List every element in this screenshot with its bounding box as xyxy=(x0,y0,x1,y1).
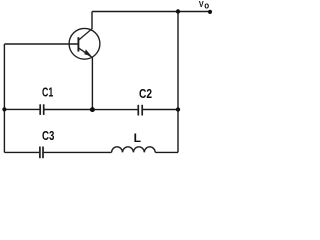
wire right vertical rail xyxy=(177,12,179,153)
svg-text:L: L xyxy=(134,131,141,145)
wire top rail from collector to output terminal xyxy=(92,11,210,13)
capacitor C1 xyxy=(40,104,44,115)
wire C1 row right segment xyxy=(44,109,92,111)
wire C2 row right segment xyxy=(143,109,178,111)
wire emitter lead vertical xyxy=(91,58,93,110)
capacitor C2 xyxy=(138,105,142,116)
capacitor C3 xyxy=(40,147,43,159)
svg-text:C2: C2 xyxy=(139,86,152,101)
junction node: left rail / C1 row xyxy=(2,107,6,111)
transistor Q1 xyxy=(69,28,100,59)
wire bottom rail left segment xyxy=(4,151,39,153)
wire left vertical rail xyxy=(3,44,5,152)
wire base lead horizontal xyxy=(4,43,78,45)
wire collector lead vertical xyxy=(91,12,93,30)
wire bottom rail right segment xyxy=(155,151,178,153)
svg-text:C1: C1 xyxy=(42,85,53,100)
wire C2 row left segment xyxy=(92,109,137,111)
svg-text:C3: C3 xyxy=(42,128,54,143)
wire bottom rail middle segment xyxy=(43,151,111,153)
wire C1 row left segment xyxy=(4,108,39,110)
junction node: emitter / C1-C2 row xyxy=(90,107,95,112)
inductor L xyxy=(112,147,156,153)
svg-text:o: o xyxy=(204,1,209,11)
junction node: right rail / C2 row xyxy=(176,107,180,111)
junction node: top rail / right rail xyxy=(176,9,180,13)
output terminal dot xyxy=(208,10,212,14)
